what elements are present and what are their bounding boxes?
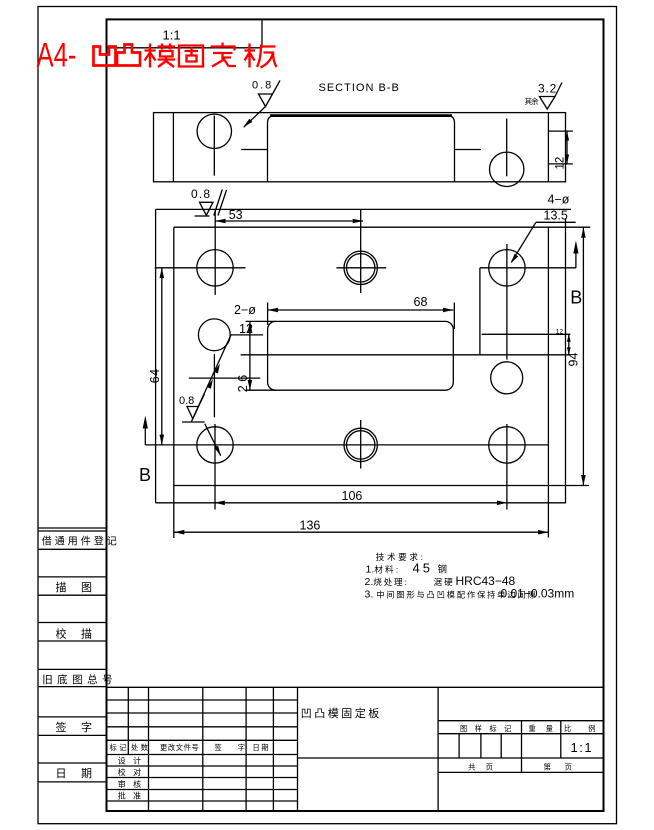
- svg-text:53: 53: [229, 208, 243, 222]
- scale box bottom line: [107, 47, 263, 49]
- dimension 26 line: [249, 321, 251, 390]
- title block part name cell divider: [437, 687, 439, 811]
- left column rule 1: [39, 528, 107, 782]
- section arrow B top-right head: [573, 241, 578, 254]
- dimension 136 line: [174, 531, 549, 533]
- svg-text:处数: 处数: [131, 743, 150, 752]
- roughness 0.8 hole leader arrow: [214, 446, 220, 456]
- section strip lower step line: [548, 163, 572, 165]
- section left hole circle: [197, 114, 231, 148]
- title block right rows: [438, 721, 603, 773]
- svg-text:设计: 设计: [118, 755, 149, 765]
- svg-text:第页: 第页: [544, 762, 586, 772]
- svg-text:校对: 校对: [118, 767, 149, 777]
- hole top-left horizontal centerline: [155, 267, 246, 269]
- roughness 0.8 left triangle: [187, 394, 205, 419]
- dimension 26 bottom arrow: [248, 380, 253, 390]
- tiny step dimension line: [568, 334, 570, 355]
- hole bottom-right circle: [489, 427, 525, 463]
- hole bottom-left circle: [197, 427, 233, 463]
- slot centerline horizontal: [241, 354, 571, 356]
- red title glyph 定: [211, 43, 237, 67]
- dimension 94 bottom arrow: [581, 475, 586, 485]
- section right hole centerline: [506, 119, 508, 177]
- roughness 0.8 left leader diagonal: [191, 335, 231, 422]
- dimension 64 line: [161, 268, 163, 445]
- tiny step dimension lower arrow: [567, 347, 571, 355]
- label 13.5 underline: [536, 221, 576, 223]
- svg-text:图样标记: 图样标记: [460, 724, 519, 733]
- label 2-o12 leader bar: [230, 334, 263, 336]
- section left vertical edge line: [172, 113, 174, 182]
- svg-text:签字: 签字: [56, 720, 107, 734]
- label 13.5 leader line: [512, 222, 536, 262]
- section right strip vertical line: [547, 113, 549, 182]
- svg-text:描图: 描图: [56, 580, 107, 594]
- plan left edge: [173, 227, 175, 538]
- title block top edge: [107, 686, 604, 688]
- slot bottom edge left extension: [246, 389, 276, 391]
- dimension 53 left arrow: [215, 219, 225, 224]
- dimension 64 top arrow: [160, 268, 165, 278]
- svg-text:94: 94: [567, 353, 581, 367]
- plan step vertical line: [479, 268, 481, 355]
- svg-text:1:1: 1:1: [571, 740, 594, 755]
- dimension 68 right arrow: [443, 308, 453, 313]
- roughness 0.8 left leader arrow 1: [214, 364, 220, 374]
- svg-text:3.2: 3.2: [538, 81, 557, 95]
- svg-text:2.烧处理:涺硬HRC43−48: 2.烧处理:涺硬HRC43−48: [365, 574, 516, 588]
- hole top-middle vertical centerline: [360, 210, 362, 293]
- roughness 0.8 left leader arrow 2: [207, 379, 213, 389]
- svg-text:0.8: 0.8: [179, 395, 194, 407]
- inner drawing frame: [107, 19, 604, 811]
- red title glyph 板: [245, 44, 277, 68]
- dimension 136 right arrow: [538, 530, 548, 535]
- plan main right edge: [547, 227, 549, 537]
- dimension 94 top arrow: [581, 227, 586, 237]
- svg-text:借通用件登记: 借通用件登记: [42, 535, 120, 548]
- svg-text:B: B: [139, 465, 151, 485]
- title block part name bottom line: [298, 757, 439, 759]
- svg-text:批准: 批准: [118, 790, 149, 800]
- plan tongue right edge: [565, 219, 567, 504]
- long reference line above plan: [156, 208, 571, 210]
- dimension 68 line: [268, 309, 454, 311]
- svg-text:重量: 重量: [529, 724, 563, 733]
- scale box vertical line: [261, 19, 263, 47]
- hole bottom-middle vertical centerline: [360, 420, 362, 469]
- plan step upper horizontal line: [482, 333, 571, 335]
- section boss outline: [268, 116, 455, 182]
- dimension 94 line: [582, 227, 584, 485]
- svg-text:2−ø: 2−ø: [234, 303, 256, 317]
- section right counterbore step line: [455, 149, 482, 151]
- svg-text:A4-: A4-: [37, 37, 77, 75]
- bottom hole row centerline (section cut line): [145, 444, 548, 446]
- svg-text:26: 26: [236, 371, 250, 392]
- dimension 12 lower arrow: [565, 155, 569, 164]
- section arrow B bottom-left head: [143, 416, 148, 429]
- svg-text:64: 64: [148, 368, 162, 383]
- svg-text:旧底图总号: 旧底图总号: [42, 673, 117, 686]
- section arrow B top-right shaft: [575, 253, 577, 268]
- center mark cross vertical: [213, 354, 215, 417]
- dimension 26 top arrow: [248, 321, 253, 331]
- svg-text:标记: 标记: [110, 743, 129, 752]
- hole top-middle outer circle: [344, 251, 377, 284]
- dimension 106 right arrow: [497, 501, 507, 506]
- title block revision rows: [107, 700, 298, 801]
- svg-text:SECTION B-B: SECTION B-B: [319, 82, 400, 94]
- roughness 0.8 above section leader: [244, 107, 266, 128]
- central slot rounded rectangle: [268, 321, 454, 390]
- hole top-right horizontal centerline (section cut line): [480, 267, 576, 269]
- red title glyph 凸: [117, 45, 140, 66]
- svg-text:审核: 审核: [118, 779, 149, 789]
- reference line left vertical: [155, 209, 157, 502]
- dimension 12 line (section): [566, 131, 568, 164]
- roughness 3.2 triangle: [540, 83, 563, 110]
- dimension 106 left arrow: [215, 501, 225, 506]
- roughness 0.8 above section triangle: [259, 81, 281, 107]
- svg-text:4−ø: 4−ø: [548, 193, 570, 207]
- title block right verticals: [459, 721, 561, 773]
- slot right extension for 68: [453, 303, 455, 330]
- hole top-right vertical centerline: [506, 244, 508, 360]
- plan top edge: [174, 226, 591, 228]
- label 13.5 leader arrow: [511, 254, 519, 264]
- roughness 0.8 left bar: [182, 421, 205, 423]
- section left hole centerline: [213, 116, 215, 176]
- svg-text:13.5: 13.5: [544, 209, 568, 223]
- svg-text:136: 136: [300, 518, 321, 532]
- hole mid-right circle: [491, 362, 523, 394]
- svg-text:B: B: [570, 288, 582, 308]
- dimension 64 bottom arrow: [160, 435, 165, 445]
- section right hole circle: [490, 152, 524, 186]
- roughness 0.8 top-left slash 2: [218, 190, 227, 216]
- section boss thick top edge: [270, 114, 452, 117]
- slot top edge left extension: [246, 320, 276, 322]
- svg-text:日期: 日期: [56, 767, 107, 780]
- section view outer rectangle: [154, 113, 566, 182]
- svg-text:0.8: 0.8: [191, 187, 211, 201]
- svg-text:凹凸模固定板: 凹凸模固定板: [301, 706, 382, 720]
- hole top-left circle: [197, 250, 233, 286]
- slot left extension for 68: [267, 303, 269, 326]
- svg-text:0.8: 0.8: [252, 80, 273, 92]
- section arrow B bottom-left shaft: [144, 428, 146, 445]
- hole bottom-middle inner circle: [347, 431, 375, 459]
- svg-text:比例: 比例: [564, 724, 612, 733]
- dimension 53 line: [215, 220, 363, 222]
- hole top-middle horizontal centerline: [336, 267, 386, 269]
- svg-text:其余: 其余: [525, 96, 539, 106]
- hole bottom-left vertical centerline: [214, 424, 216, 510]
- plan bottom edge: [174, 485, 589, 487]
- svg-text:12: 12: [555, 157, 567, 170]
- svg-text:1:1: 1:1: [163, 28, 181, 43]
- svg-text:日期: 日期: [253, 743, 271, 752]
- hole top-left vertical centerline: [214, 210, 216, 295]
- red title glyph 模: [145, 44, 176, 68]
- roughness 0.8 top-left bar: [195, 215, 210, 217]
- dimension 136 left arrow: [174, 530, 184, 535]
- svg-text:106: 106: [342, 489, 363, 503]
- roughness 0.8 top-left triangle: [200, 202, 214, 215]
- hole bottom-middle outer circle: [344, 428, 377, 461]
- title block left table verticals: [128, 687, 297, 811]
- section left counterbore step line: [241, 149, 267, 151]
- dimension 106 line: [156, 502, 566, 504]
- red title glyph 固: [179, 46, 203, 67]
- hole bottom-right vertical centerline: [506, 424, 508, 510]
- hole top-middle inner circle: [347, 254, 375, 282]
- dimension 53 right arrow: [353, 219, 363, 224]
- roughness 0.8 hole leader line: [205, 424, 221, 456]
- hole mid-left circle: [198, 319, 230, 351]
- svg-text:68: 68: [414, 295, 428, 309]
- svg-text:12: 12: [239, 322, 253, 336]
- dimension 12 upper arrow: [565, 131, 569, 140]
- hole top-right circle: [489, 250, 525, 286]
- section strip upper step line: [548, 130, 572, 132]
- red title glyph 凹: [94, 47, 116, 66]
- roughness 0.8 top-left slash 1: [214, 190, 223, 216]
- svg-text:12: 12: [556, 329, 564, 336]
- svg-text:更改文件号: 更改文件号: [160, 743, 199, 752]
- tiny step dimension upper arrow: [567, 334, 571, 342]
- svg-text:共页: 共页: [468, 763, 503, 772]
- svg-text:校描: 校描: [56, 626, 107, 640]
- center mark cross horizontal: [189, 377, 260, 379]
- dimension 68 left arrow: [268, 308, 278, 313]
- roughness 0.8 above section leader arrow: [243, 119, 252, 128]
